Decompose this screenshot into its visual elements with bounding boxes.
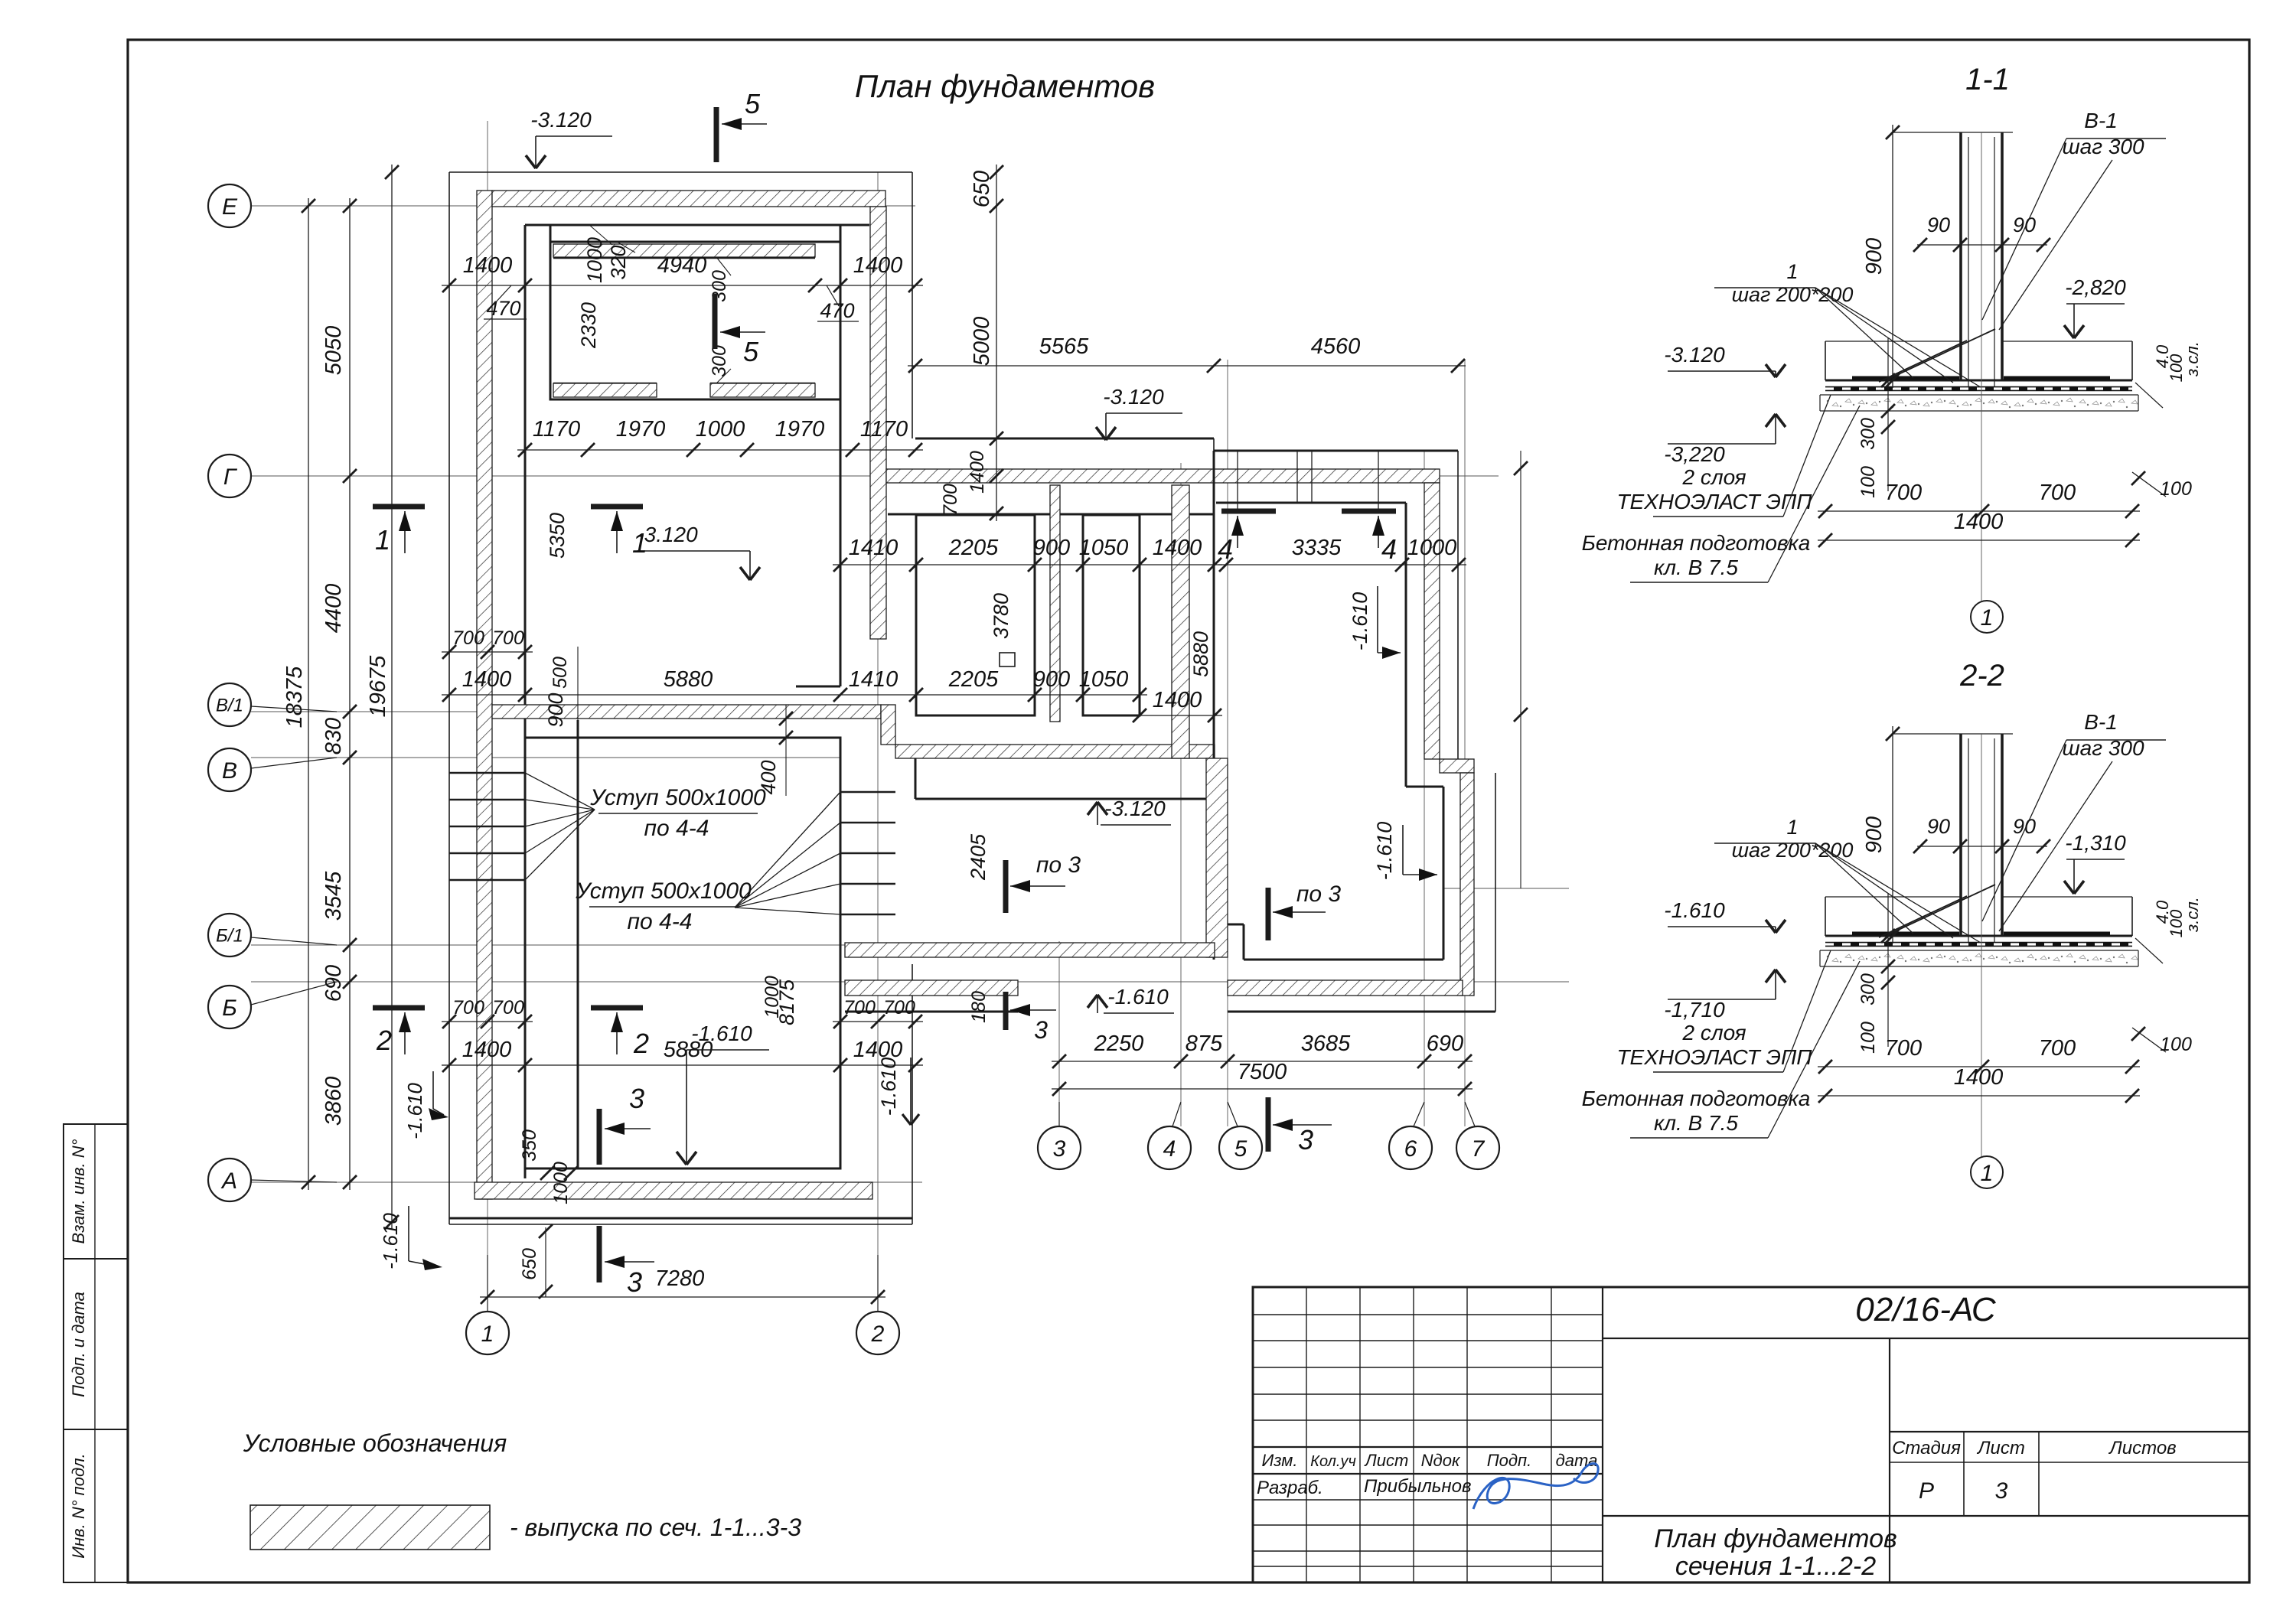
title block right part lines xyxy=(1603,1338,2249,1339)
svg-text:-3.120: -3.120 xyxy=(530,108,592,132)
svg-text:шаг 200*200: шаг 200*200 xyxy=(1732,839,1854,862)
svg-text:1-1: 1-1 xyxy=(1965,63,2010,96)
section mark 2 right xyxy=(591,1005,643,1011)
svg-text:з.сл.: з.сл. xyxy=(2183,341,2202,377)
svg-text:дата: дата xyxy=(1556,1451,1598,1470)
svg-text:Изм.: Изм. xyxy=(1262,1451,1298,1470)
svg-text:Лист: Лист xyxy=(1364,1451,1409,1470)
svg-text:7: 7 xyxy=(1472,1136,1486,1162)
svg-text:2 слоя: 2 слоя xyxy=(1681,1021,1746,1045)
svg-text:1970: 1970 xyxy=(616,417,666,442)
step lines on east wall of lower room xyxy=(840,791,895,794)
section bent rebar legs xyxy=(1879,896,1967,937)
right wing west wall rebar band xyxy=(1206,758,1228,957)
svg-text:Разраб.: Разраб. xyxy=(1257,1478,1323,1498)
svg-text:100: 100 xyxy=(2160,1034,2192,1055)
step fan leader left xyxy=(525,773,595,810)
section mark 5 top xyxy=(714,107,719,162)
svg-text:700: 700 xyxy=(843,997,876,1018)
section footing mesh xyxy=(1825,386,2132,392)
section wall centerline xyxy=(1981,132,1982,601)
left wing north wall interior face xyxy=(525,224,869,227)
axis grid lines xyxy=(251,205,915,207)
chamber pilaster duct C xyxy=(1083,515,1140,715)
svg-text:1410: 1410 xyxy=(849,667,899,692)
right wing south exterior xyxy=(1228,1011,1495,1013)
section right mini dim 100 xyxy=(2132,472,2166,497)
svg-text:кл. В 7.5: кл. В 7.5 xyxy=(1654,556,1738,579)
svg-text:Условные обозначения: Условные обозначения xyxy=(243,1429,507,1457)
svg-text:700: 700 xyxy=(1885,1036,1922,1061)
svg-text:400: 400 xyxy=(757,760,780,794)
svg-text:Е: Е xyxy=(222,194,238,220)
axis circle В/1 xyxy=(208,683,251,726)
chamber rebar band D axis 4 xyxy=(1172,485,1189,758)
section mark 3 bottom right xyxy=(1266,1097,1271,1152)
right wing east exterior upper xyxy=(1457,451,1459,765)
right wing east wall rebar band lower xyxy=(1460,773,1474,996)
right wing garage west face xyxy=(1213,451,1215,960)
svg-text:900: 900 xyxy=(1033,536,1070,560)
svg-text:5880: 5880 xyxy=(664,667,713,692)
svg-text:2: 2 xyxy=(376,1025,392,1056)
svg-text:-1,310: -1,310 xyxy=(2065,831,2126,855)
pit interior top face xyxy=(553,257,815,259)
legend hatch sample xyxy=(250,1505,490,1550)
svg-text:1: 1 xyxy=(375,524,390,556)
svg-text:-1.610: -1.610 xyxy=(1349,592,1371,651)
svg-text:Б: Б xyxy=(222,996,237,1021)
section mark 3 in lower room xyxy=(597,1109,602,1165)
pit (boiler pit) walls xyxy=(550,242,840,399)
svg-text:В/1: В/1 xyxy=(216,696,243,716)
svg-text:1410: 1410 xyxy=(849,536,899,560)
svg-text:ТЕХНОЭЛАСТ ЭПП: ТЕХНОЭЛАСТ ЭПП xyxy=(1616,1045,1812,1069)
svg-text:700: 700 xyxy=(452,627,484,649)
svg-text:Бетонная подготовка: Бетонная подготовка xyxy=(1582,1087,1811,1110)
left wing north wall rebar band xyxy=(492,191,885,207)
svg-text:1000: 1000 xyxy=(1407,536,1457,560)
vertical axis lines xyxy=(487,121,488,1302)
svg-text:300: 300 xyxy=(1857,418,1879,450)
section bent rebar legs xyxy=(1879,341,1967,382)
svg-text:6: 6 xyxy=(1404,1136,1417,1162)
section mark 2 left xyxy=(373,1005,425,1011)
axis-2 wall rebar band xyxy=(870,207,886,639)
left wing west wall rebar band xyxy=(477,191,492,1199)
wall band south of chamber xyxy=(895,745,1215,758)
section bottom dims 700 700 1400 xyxy=(1818,510,2140,512)
section ledge line xyxy=(1825,341,1961,342)
svg-text:1050: 1050 xyxy=(1079,536,1129,560)
Б zone 700 700 chain right xyxy=(833,1021,923,1022)
svg-text:5350: 5350 xyxy=(546,513,569,559)
svg-text:500: 500 xyxy=(550,657,571,689)
svg-text:1400: 1400 xyxy=(1954,510,2004,534)
interior wall edge line x=755 xyxy=(577,720,579,1168)
right wing east exterior lower xyxy=(1495,773,1496,1012)
axis circle В xyxy=(208,748,251,791)
svg-text:-3,220: -3,220 xyxy=(1664,442,1725,466)
svg-text:3: 3 xyxy=(629,1083,644,1114)
svg-text:90: 90 xyxy=(1927,213,1950,236)
svg-text:1400: 1400 xyxy=(1954,1065,2004,1090)
svg-text:по 4-4: по 4-4 xyxy=(644,816,709,841)
svg-text:3: 3 xyxy=(1995,1478,2008,1504)
section dim 900 xyxy=(1892,125,1893,388)
svg-text:2: 2 xyxy=(871,1322,885,1347)
svg-text:-1.610: -1.610 xyxy=(1107,985,1169,1009)
svg-text:1: 1 xyxy=(1981,605,1994,631)
svg-text:- выпуска по сеч. 1-1...3-3: - выпуска по сеч. 1-1...3-3 xyxy=(510,1514,801,1541)
corridor along axis Г north face xyxy=(915,438,1214,440)
svg-text:700: 700 xyxy=(492,997,524,1018)
svg-text:5565: 5565 xyxy=(1039,334,1089,359)
section dim 300 100 xyxy=(1887,338,1889,491)
section footing mesh xyxy=(1825,942,2132,947)
5880 rotated dim right chain line xyxy=(1520,451,1521,888)
axis circle 2 xyxy=(856,1312,899,1354)
svg-text:300: 300 xyxy=(1857,973,1879,1005)
svg-text:1000: 1000 xyxy=(696,417,745,442)
svg-text:3: 3 xyxy=(1053,1136,1066,1162)
svg-text:1400: 1400 xyxy=(853,253,903,278)
svg-text:02/16-АС: 02/16-АС xyxy=(1855,1291,1997,1328)
svg-text:-1.610: -1.610 xyxy=(691,1022,752,1045)
svg-text:690: 690 xyxy=(1427,1031,1463,1056)
section dims 90 90 xyxy=(1917,846,2047,847)
step fan leader right xyxy=(735,792,840,908)
axis circle Б xyxy=(208,986,251,1028)
svg-text:Лист: Лист xyxy=(1976,1438,2025,1458)
svg-text:1970: 1970 xyxy=(775,417,825,442)
south wall face west segment xyxy=(845,1011,1018,1013)
svg-text:-1.610: -1.610 xyxy=(379,1213,402,1269)
по 3 mark right xyxy=(1266,888,1271,940)
svg-text:700: 700 xyxy=(2039,1036,2076,1061)
svg-text:-3.120: -3.120 xyxy=(1103,385,1164,409)
svg-text:кл. В 7.5: кл. В 7.5 xyxy=(1654,1111,1738,1135)
bottom chain 7280 xyxy=(480,1296,885,1298)
svg-text:3685: 3685 xyxy=(1301,1031,1351,1056)
svg-text:690: 690 xyxy=(321,965,346,1002)
svg-text:1: 1 xyxy=(632,527,647,559)
svg-text:320: 320 xyxy=(607,245,630,279)
svg-text:3545: 3545 xyxy=(321,871,346,921)
section mark 3 bottom xyxy=(597,1226,602,1282)
axis circle Е xyxy=(208,184,251,227)
svg-text:В: В xyxy=(222,758,237,784)
section ledge line xyxy=(1825,896,1961,898)
svg-text:2205: 2205 xyxy=(948,536,999,560)
svg-text:2 слоя: 2 слоя xyxy=(1681,465,1746,489)
section axis circle 1 xyxy=(1971,1156,2003,1188)
svg-text:1400: 1400 xyxy=(462,1038,512,1062)
south wall rebar band west segment xyxy=(845,980,1018,996)
В zone 700 700 chain left xyxy=(442,651,533,653)
svg-text:План фундаментов: План фундаментов xyxy=(1654,1524,1896,1553)
svg-text:Инв. N° подл.: Инв. N° подл. xyxy=(69,1453,88,1558)
axis circle 5 xyxy=(1219,1126,1262,1169)
section dims 90 90 xyxy=(1917,244,2047,246)
svg-text:100: 100 xyxy=(2160,478,2192,500)
right bottom chain 2250 875 3685 690 xyxy=(1052,1061,1473,1062)
chain 5565 4560 xyxy=(908,365,1466,367)
svg-text:4: 4 xyxy=(1218,533,1233,565)
svg-text:-1,710: -1,710 xyxy=(1664,998,1725,1022)
svg-text:з.сл.: з.сл. xyxy=(2183,897,2202,933)
Б zone 700 700 chain left xyxy=(442,1021,533,1022)
svg-text:по 4-4: по 4-4 xyxy=(628,909,693,934)
svg-text:100: 100 xyxy=(1857,466,1879,498)
svg-text:900: 900 xyxy=(1862,238,1887,275)
svg-text:3: 3 xyxy=(1298,1124,1313,1155)
svg-text:875: 875 xyxy=(1186,1031,1223,1056)
title block verticals left part xyxy=(1306,1287,1307,1582)
svg-text:Бетонная подготовка: Бетонная подготовка xyxy=(1582,531,1811,555)
svg-text:1400: 1400 xyxy=(463,253,513,278)
svg-text:5: 5 xyxy=(745,88,761,119)
svg-text:5: 5 xyxy=(743,336,759,367)
left wing outer boundary xyxy=(449,171,912,173)
svg-text:Уступ 500х1000: Уступ 500х1000 xyxy=(589,785,766,810)
svg-text:3335: 3335 xyxy=(1292,536,1342,560)
В/1 wall jog band xyxy=(881,705,895,745)
svg-text:-3.120: -3.120 xyxy=(1664,343,1725,367)
middle room north face xyxy=(915,758,917,799)
chamber upper chain 1410 2205 900 1050 1400 xyxy=(833,564,1222,565)
svg-text:650: 650 xyxy=(970,171,994,207)
svg-text:-1.610: -1.610 xyxy=(1373,822,1396,881)
left stamp table xyxy=(64,1124,128,1582)
svg-text:-2,820: -2,820 xyxy=(2065,275,2126,299)
svg-text:5050: 5050 xyxy=(321,326,346,376)
section dim 300 100 xyxy=(1887,894,1889,1047)
svg-text:по 3: по 3 xyxy=(1296,882,1342,907)
svg-text:19675: 19675 xyxy=(366,655,390,718)
pit bottom chain 1170 1970 1000 1970 1170 xyxy=(517,449,923,451)
small pier block xyxy=(1000,653,1015,666)
left wing south wall rebar band xyxy=(475,1182,872,1199)
east wall step at -1.610 xyxy=(1406,786,1443,788)
corridor along axis Г rebar band xyxy=(886,469,1440,483)
svg-text:7280: 7280 xyxy=(655,1266,705,1291)
svg-text:-1.610: -1.610 xyxy=(1664,898,1725,922)
svg-text:3780: 3780 xyxy=(990,593,1013,639)
svg-text:Стадия: Стадия xyxy=(1892,1438,1961,1458)
section wall lines xyxy=(1959,132,1962,380)
svg-text:3: 3 xyxy=(627,1266,642,1298)
svg-text:470: 470 xyxy=(486,297,520,320)
left wing west wall interior face xyxy=(524,225,527,738)
svg-text:Уступ 500х1000: Уступ 500х1000 xyxy=(575,878,752,904)
svg-text:Р: Р xyxy=(1919,1478,1934,1504)
svg-text:300: 300 xyxy=(709,270,730,302)
svg-text:Прибыльнов: Прибыльнов xyxy=(1364,1476,1471,1497)
svg-text:В-1: В-1 xyxy=(2084,109,2118,132)
svg-text:700: 700 xyxy=(452,997,484,1018)
svg-text:1: 1 xyxy=(1786,260,1798,283)
svg-text:4: 4 xyxy=(1163,1136,1176,1162)
svg-text:90: 90 xyxy=(2013,213,2036,236)
title block outer xyxy=(1253,1287,2249,1582)
axis circle Б/1 xyxy=(208,914,251,957)
step lines (уступ) on west wall xyxy=(449,772,525,774)
svg-text:900: 900 xyxy=(1862,816,1887,853)
pit north wall rebar band xyxy=(553,244,815,257)
corridor south face / chamber top xyxy=(888,513,1214,516)
svg-text:1: 1 xyxy=(1981,1161,1994,1186)
В/1 corridor wall rebar band xyxy=(492,705,881,719)
right wing lower room interior bottom xyxy=(1244,959,1443,961)
right-of-left-wing vertical chain 650 5000 1400 700 xyxy=(996,165,997,521)
svg-text:700: 700 xyxy=(2039,481,2076,505)
pit south wall rebar band segment 1 xyxy=(553,383,657,397)
svg-text:2: 2 xyxy=(633,1028,649,1059)
svg-text:Кол.уч: Кол.уч xyxy=(1310,1453,1356,1470)
section mark 4 right xyxy=(1342,509,1396,514)
svg-text:Листов: Листов xyxy=(2108,1438,2176,1458)
svg-text:1000: 1000 xyxy=(583,237,606,283)
axis circle 3 xyxy=(1038,1126,1081,1169)
по 3 mark left xyxy=(1003,860,1009,913)
right wing garage interior top xyxy=(1216,502,1406,504)
left wing east interior face xyxy=(840,399,842,686)
section mark 5 in pit xyxy=(713,294,718,349)
section concrete prep layer xyxy=(1820,966,2138,967)
section bottom dims 700 700 1400 xyxy=(1818,1066,2140,1067)
svg-text:1000: 1000 xyxy=(762,976,783,1018)
axis circle Г xyxy=(208,455,251,497)
section wall lines xyxy=(1959,734,1962,936)
svg-text:650: 650 xyxy=(519,1248,540,1280)
section footing xyxy=(1825,380,2132,382)
svg-text:7500: 7500 xyxy=(1238,1060,1287,1084)
svg-text:4940: 4940 xyxy=(657,253,707,278)
svg-text:18375: 18375 xyxy=(282,666,307,728)
svg-text:700: 700 xyxy=(492,627,524,649)
svg-text:180: 180 xyxy=(968,991,990,1023)
svg-text:900: 900 xyxy=(1033,667,1070,692)
south wall rebar band east segment xyxy=(1228,980,1463,996)
svg-text:90: 90 xyxy=(1927,815,1950,838)
svg-text:2330: 2330 xyxy=(577,302,600,349)
svg-text:90: 90 xyxy=(2013,815,2036,838)
axis circle А xyxy=(208,1159,251,1201)
section wall centerline xyxy=(1981,734,1982,1156)
lower big room of left wing xyxy=(525,738,840,1168)
right wing north exterior xyxy=(1213,438,1215,451)
svg-text:4560: 4560 xyxy=(1311,334,1361,359)
section mark 3 left of corridor xyxy=(1003,992,1009,1030)
svg-text:План фундаментов: План фундаментов xyxy=(855,68,1155,104)
svg-text:сечения 1-1...2-2: сечения 1-1...2-2 xyxy=(1675,1552,1876,1581)
svg-text:700: 700 xyxy=(1885,481,1922,505)
signature blue xyxy=(1473,1464,1598,1509)
svg-text:1400: 1400 xyxy=(462,667,512,692)
section rebar outlet bars xyxy=(1852,932,1959,936)
svg-text:700: 700 xyxy=(940,484,961,516)
section mark 1 left xyxy=(373,504,425,510)
right bottom chain 7500 xyxy=(1052,1088,1473,1090)
section mark 1 right xyxy=(591,504,643,510)
svg-text:-1.610: -1.610 xyxy=(877,1058,900,1116)
svg-text:3: 3 xyxy=(1034,1016,1048,1044)
section rebar outlet bars xyxy=(1852,376,1959,380)
svg-text:Взам. инв. N°: Взам. инв. N° xyxy=(69,1139,88,1243)
svg-text:В-1: В-1 xyxy=(2084,710,2118,734)
svg-text:100: 100 xyxy=(1857,1022,1879,1054)
svg-text:1050: 1050 xyxy=(1079,667,1129,692)
svg-text:по 3: по 3 xyxy=(1036,852,1081,878)
pit interior bottom faces xyxy=(553,383,657,385)
section right mini dim 100 xyxy=(2132,1028,2166,1052)
svg-text:4: 4 xyxy=(1381,533,1397,565)
title block horizontals left part xyxy=(1253,1314,1603,1315)
axis circle 4 xyxy=(1148,1126,1191,1169)
svg-text:-1.610: -1.610 xyxy=(403,1083,426,1139)
svg-text:900: 900 xyxy=(544,693,567,727)
svg-text:1170: 1170 xyxy=(533,417,580,442)
svg-text:2-2: 2-2 xyxy=(1959,659,2004,693)
pit south wall rebar band segment 2 xyxy=(710,383,815,397)
left dimension chain axis spacings xyxy=(349,198,351,1190)
right wing garage east interior face xyxy=(1405,503,1407,787)
svg-text:700: 700 xyxy=(883,997,915,1018)
axis circle 1 xyxy=(466,1312,509,1354)
svg-text:2205: 2205 xyxy=(948,667,999,692)
svg-text:830: 830 xyxy=(321,718,346,754)
chamber rebar band B xyxy=(1050,485,1060,722)
svg-text:1170: 1170 xyxy=(860,417,908,442)
svg-text:1400: 1400 xyxy=(967,451,988,494)
svg-text:5880: 5880 xyxy=(1189,631,1212,677)
svg-text:3860: 3860 xyxy=(321,1077,346,1126)
svg-text:2250: 2250 xyxy=(1094,1031,1144,1056)
section footing xyxy=(1825,935,2132,937)
svg-text:Б/1: Б/1 xyxy=(216,926,243,947)
axis circle 6 xyxy=(1389,1126,1432,1169)
В zone main chain 1400 5880 1410 2205 900 1050 xyxy=(442,694,1147,696)
svg-text:Г: Г xyxy=(223,464,238,490)
svg-text:1400: 1400 xyxy=(1153,688,1202,712)
top chain 1400 470 4940 1400 xyxy=(442,285,923,286)
section dim 900 xyxy=(1892,726,1893,943)
svg-text:Подп. и дата: Подп. и дата xyxy=(69,1292,88,1397)
section concrete prep layer xyxy=(1820,410,2138,412)
svg-text:5: 5 xyxy=(1234,1136,1247,1162)
axis circle 7 xyxy=(1456,1126,1499,1169)
door opening verticals in garage north wall xyxy=(1237,451,1238,511)
svg-text:ТЕХНОЭЛАСТ ЭПП: ТЕХНОЭЛАСТ ЭПП xyxy=(1616,490,1812,513)
left dimension chain 18375 xyxy=(308,198,309,1190)
svg-text:1: 1 xyxy=(481,1322,494,1347)
svg-text:Подп.: Подп. xyxy=(1487,1451,1532,1470)
Б zone chain 1400 5880 1400 xyxy=(442,1064,923,1066)
svg-text:4400: 4400 xyxy=(321,584,346,634)
650 rotated dim bottom xyxy=(545,1227,546,1297)
svg-text:А: А xyxy=(220,1168,237,1194)
right wing east wall band jog xyxy=(1440,759,1474,773)
chamber pilaster duct A xyxy=(916,515,1035,715)
section axis circle 1 xyxy=(1971,601,2003,633)
svg-text:5000: 5000 xyxy=(970,317,994,367)
svg-text:1400: 1400 xyxy=(1153,536,1202,560)
garage chain 4 3335 4 1000 xyxy=(1218,564,1466,565)
left dimension chain 19675 xyxy=(391,165,393,1230)
svg-text:1: 1 xyxy=(1786,816,1798,839)
svg-text:-3.120: -3.120 xyxy=(1104,797,1166,820)
